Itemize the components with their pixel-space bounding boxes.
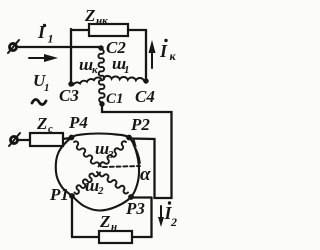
wire T2 to Zc [18, 139, 31, 141]
svg-text:α: α [140, 164, 151, 185]
terminal T2 [9, 133, 20, 146]
wire Zc to P4 [63, 138, 70, 139]
current arrow Ik [149, 40, 156, 68]
node P2 [126, 115, 150, 140]
label w2 [85, 176, 104, 197]
svg-text:1: 1 [48, 32, 54, 46]
label Zn [99, 212, 117, 233]
svg-text:P1: P1 [49, 185, 69, 204]
dashed axis [103, 166, 140, 167]
label Ik [159, 39, 177, 63]
wire riser to C3 [70, 29, 72, 82]
node C4 [135, 78, 155, 106]
node C1 [99, 91, 123, 107]
node C2 [98, 38, 126, 57]
label Znk [84, 6, 108, 27]
wire input top [17, 46, 102, 48]
label ~ [32, 99, 46, 104]
svg-text:1: 1 [44, 82, 50, 94]
wire riser to C4 [145, 30, 147, 79]
angle arc alpha [131, 139, 140, 163]
node P3 [125, 194, 145, 218]
node C3 [59, 81, 79, 105]
svg-text:P3: P3 [125, 199, 145, 218]
svg-text:Z: Z [36, 114, 47, 133]
svg-text:Z: Z [99, 212, 110, 231]
svg-text:2: 2 [97, 185, 104, 197]
wire down to load [150, 198, 152, 238]
label wk [79, 55, 98, 76]
winding w2 lower [75, 172, 129, 194]
resistor Zn [99, 231, 132, 243]
svg-text:P2: P2 [130, 115, 150, 134]
svg-text:н: н [111, 221, 117, 233]
label I1 [37, 22, 54, 46]
wire P3 link [131, 196, 152, 198]
label alpha [140, 164, 151, 185]
svg-text:C3: C3 [59, 86, 79, 105]
current arrow I2 [158, 206, 164, 227]
svg-text:I: I [159, 41, 168, 61]
svg-text:3: 3 [107, 149, 114, 161]
winding w1 vertical C2-C1 [98, 49, 104, 102]
svg-text:2: 2 [170, 215, 177, 229]
node P1 [49, 185, 75, 204]
svg-text:C1: C1 [106, 91, 124, 107]
winding wk horizontal C3-C4 [73, 76, 144, 85]
label U1 [33, 71, 50, 94]
wire C1 to P2 route [102, 104, 172, 198]
wire P1 drop [71, 196, 73, 237]
resistor Zc [30, 133, 63, 146]
phase regulator body [56, 134, 139, 211]
svg-text:с: с [48, 123, 53, 135]
label w3 [95, 139, 114, 161]
svg-text:к: к [170, 49, 177, 63]
svg-text:C2: C2 [106, 38, 126, 57]
svg-text:C4: C4 [135, 87, 155, 106]
node P4 [68, 113, 88, 140]
svg-text:1: 1 [124, 64, 130, 76]
terminal T1 [8, 40, 19, 53]
winding w3 upper [74, 141, 126, 166]
label w1 [112, 54, 130, 76]
wire bottom rail [72, 236, 152, 238]
current arrow I1 [29, 54, 58, 62]
label Zc [36, 114, 53, 135]
resistor Znk [71, 24, 146, 36]
svg-text:Z: Z [84, 6, 95, 25]
label I2 [164, 201, 178, 229]
svg-text:нк: нк [96, 15, 108, 27]
svg-text:к: к [92, 64, 98, 76]
svg-text:P4: P4 [68, 113, 88, 132]
